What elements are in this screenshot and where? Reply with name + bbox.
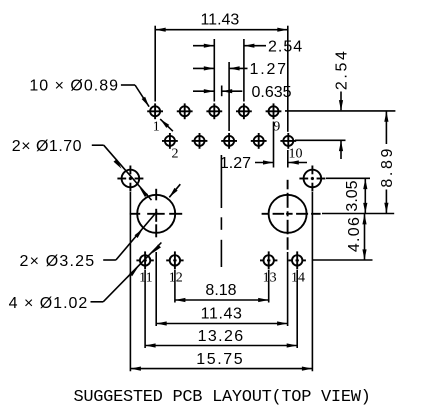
extension line hole 3.25 left down xyxy=(155,252,157,326)
dimension 11.43 top xyxy=(155,12,288,32)
extension line hole 1.70 left down xyxy=(129,192,131,371)
svg-text:2× Ø3.25: 2× Ø3.25 xyxy=(20,253,96,270)
svg-text:2.54: 2.54 xyxy=(268,38,303,55)
svg-text:2× Ø1.70: 2× Ø1.70 xyxy=(12,138,82,155)
extension line pin7 xyxy=(243,39,245,102)
svg-text:1: 1 xyxy=(153,119,160,134)
svg-text:8.18: 8.18 xyxy=(205,282,236,299)
callout 10x d0.89 xyxy=(29,77,150,108)
pin 6 pad xyxy=(221,133,237,149)
svg-text:13: 13 xyxy=(263,271,277,286)
dimension 1.27 pins 9-10 xyxy=(220,155,307,172)
callout 2x d3.25 xyxy=(20,212,158,271)
pin 5 pad xyxy=(206,103,222,119)
extension line row2 right xyxy=(295,139,346,141)
svg-text:0.635: 0.635 xyxy=(252,84,292,101)
dimension 15.75 xyxy=(130,351,312,371)
pin 8 pad xyxy=(251,133,267,149)
dimension 8.89 vertical xyxy=(379,111,396,213)
mounting hole 1.70 left xyxy=(117,166,143,192)
dimension 1.27 top xyxy=(193,61,288,78)
dimension 11.43 bottom xyxy=(156,306,287,326)
svg-text:4.06: 4.06 xyxy=(346,216,363,252)
pin 9 pad xyxy=(266,103,282,119)
pin 1 pad xyxy=(147,103,163,119)
leader arrow hole 3.25 second xyxy=(168,184,181,198)
dimension 13.26 xyxy=(145,328,297,348)
svg-text:11.43: 11.43 xyxy=(200,12,239,29)
extension line pin14 down xyxy=(296,270,298,348)
dimension 4.06 vertical xyxy=(346,214,367,260)
mounting hole 1.70 right xyxy=(299,166,325,192)
svg-text:2: 2 xyxy=(172,147,179,162)
svg-text:4 × Ø1.02: 4 × Ø1.02 xyxy=(9,295,89,312)
extension line pin10 top xyxy=(287,26,289,168)
svg-text:10: 10 xyxy=(289,147,303,162)
pin 2 pad xyxy=(162,133,178,149)
pin 13 pad xyxy=(260,251,277,269)
mounting hole 3.25 right xyxy=(262,180,321,250)
svg-text:8.89: 8.89 xyxy=(379,146,396,188)
extension line hole 1.70 right down xyxy=(311,192,313,371)
svg-text:1.27: 1.27 xyxy=(250,61,288,78)
extension line pin9 down xyxy=(273,122,275,168)
extension line pin13 down xyxy=(268,270,270,303)
pin 4 pad xyxy=(192,133,208,149)
mounting hole 3.25 left xyxy=(130,189,183,238)
pin 7 pad xyxy=(236,103,252,119)
svg-text:10 × Ø0.89: 10 × Ø0.89 xyxy=(29,77,119,94)
extension line pin14 right xyxy=(312,259,373,261)
pin 10 pad xyxy=(280,133,296,149)
extension line pin11 down xyxy=(144,270,146,348)
leader arrow pin1 second xyxy=(159,118,173,132)
pin 3 pad xyxy=(177,103,193,119)
callout 4x d1.02 xyxy=(9,243,162,312)
svg-text:1.27: 1.27 xyxy=(220,155,251,172)
extension line row1 right xyxy=(285,110,395,112)
extension line pin12 down xyxy=(174,270,176,303)
svg-text:15.75: 15.75 xyxy=(196,351,244,368)
extension line hole 3.25 right down xyxy=(287,252,289,326)
svg-text:11.43: 11.43 xyxy=(201,306,243,323)
dimension 2.54 top xyxy=(193,38,303,55)
dimension 8.18 xyxy=(175,282,269,302)
extension line hole 1.70 right xyxy=(326,177,370,179)
pin 14 pad xyxy=(289,251,306,269)
extension line pin5 xyxy=(213,39,215,102)
svg-text:13.26: 13.26 xyxy=(198,328,245,345)
svg-text:2.54: 2.54 xyxy=(334,49,351,91)
pin 12 pad xyxy=(166,251,183,269)
dimension 0.635 xyxy=(193,84,292,101)
callout 2x d1.70 xyxy=(12,138,152,200)
svg-text:3.05: 3.05 xyxy=(344,180,361,211)
dimension 2.54 vertical right xyxy=(334,49,351,159)
extension line hole 3.25 right xyxy=(322,213,394,215)
extension line pin1 top xyxy=(154,26,156,102)
extension line pin6 xyxy=(228,62,230,131)
pin 11 pad xyxy=(136,251,153,269)
center line vertical dash-dot xyxy=(220,86,222,268)
dimension 3.05 vertical xyxy=(344,179,367,214)
svg-text:SUGGESTED PCB LAYOUT(TOP VIEW): SUGGESTED PCB LAYOUT(TOP VIEW) xyxy=(73,388,370,407)
